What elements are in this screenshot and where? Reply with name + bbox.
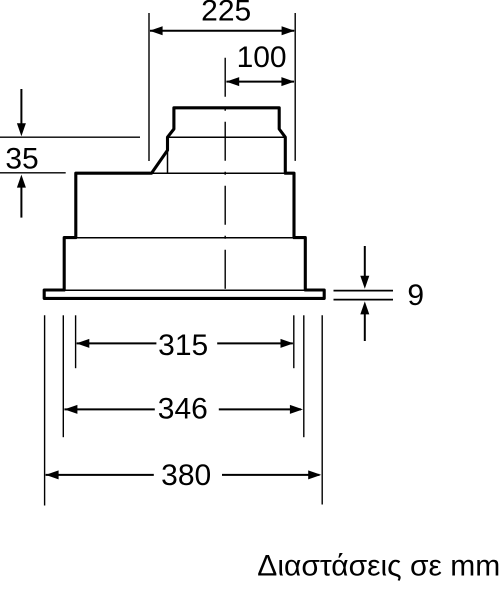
svg-text:346: 346 [158, 392, 208, 425]
svg-text:380: 380 [161, 459, 211, 492]
svg-text:9: 9 [407, 279, 424, 312]
svg-text:100: 100 [237, 41, 287, 74]
svg-text:35: 35 [5, 142, 38, 175]
svg-text:Διαστάσεις σε mm: Διαστάσεις σε mm [257, 549, 500, 582]
svg-text:315: 315 [158, 329, 208, 362]
svg-text:225: 225 [201, 0, 251, 28]
